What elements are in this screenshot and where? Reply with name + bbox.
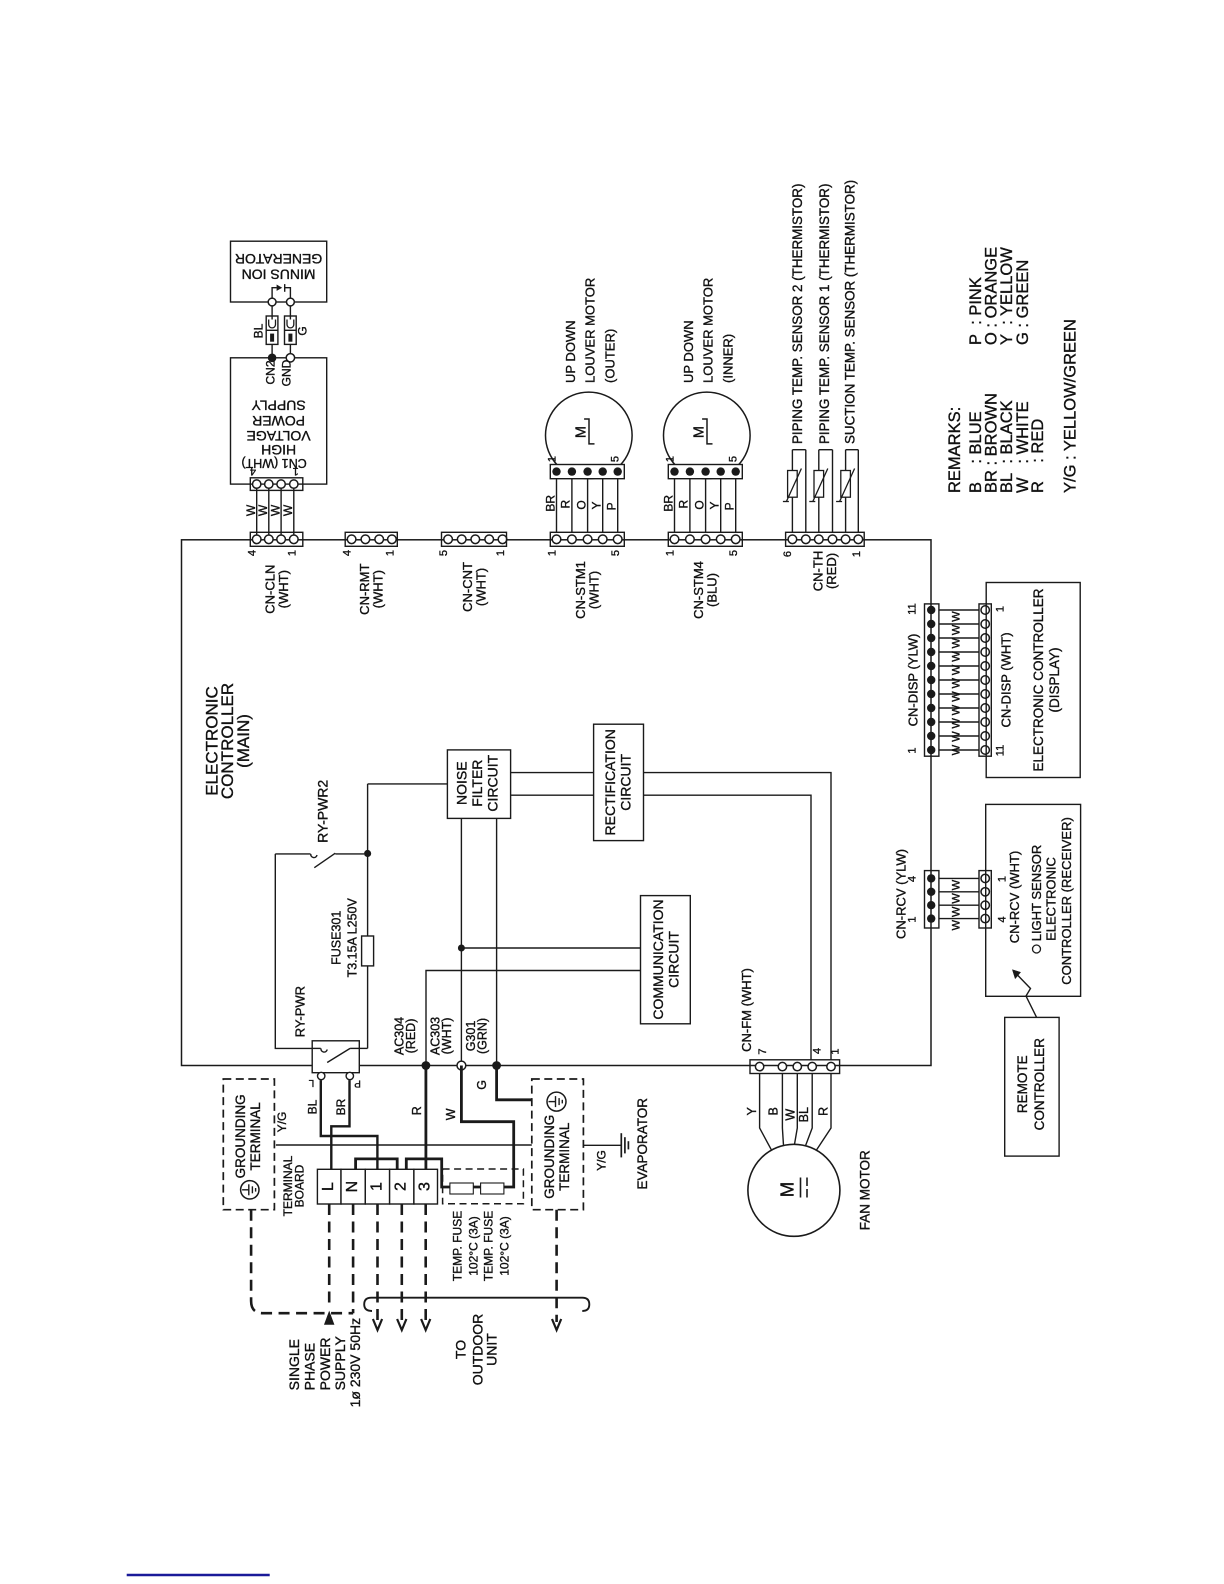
svg-text:TEMP. FUSE: TEMP. FUSE: [450, 1211, 464, 1281]
svg-text:3: 3: [417, 1182, 434, 1191]
thermistor loop 3 top: [846, 449, 859, 451]
wire W disp: [939, 665, 979, 667]
svg-text:VOLTAGE: VOLTAGE: [247, 428, 311, 444]
svg-text:(WHT): (WHT): [587, 571, 602, 609]
electronic controller (main) board outline: [182, 540, 932, 1066]
wire G G301 to grounding terminal: [497, 1066, 532, 1100]
svg-text:6: 6: [782, 551, 794, 557]
svg-text:UNIT: UNIT: [483, 1333, 499, 1366]
wire junction up: [367, 784, 369, 850]
thermistor loop 1 left leg: [791, 450, 793, 533]
bridge terminal N to 2: [356, 1159, 398, 1169]
thermistor loop 1 top: [792, 449, 805, 451]
svg-text:W: W: [951, 664, 963, 675]
wire W disp: [939, 623, 979, 625]
Y/G earth wire: [276, 1144, 532, 1146]
svg-text:1: 1: [495, 550, 507, 556]
svg-text:4: 4: [247, 550, 259, 556]
RY-PWR pin left: [318, 1072, 325, 1079]
connector CN-CNT (WHT): [444, 535, 453, 544]
thermistor loop 2 left leg: [818, 450, 820, 533]
svg-text:W: W: [951, 624, 963, 635]
svg-text:LIGHT SENSOR: LIGHT SENSOR: [1029, 845, 1044, 942]
motor wire: [720, 479, 722, 533]
svg-text:W: W: [951, 611, 963, 622]
temp fuse dashed enclosure: [443, 1169, 524, 1204]
svg-text:G: G: [295, 326, 309, 335]
dashed outdoor cable 3: [424, 1204, 427, 1322]
inline plug connector BL: [266, 316, 278, 344]
dashed earth wire right: [555, 1210, 558, 1322]
svg-text:SUPPLY: SUPPLY: [251, 398, 306, 414]
dashed outdoor cable 2: [400, 1204, 403, 1322]
RY-PWR fixed contact lead: [312, 1047, 321, 1049]
svg-text:W: W: [951, 691, 963, 702]
svg-text:MINUS ION: MINUS ION: [242, 267, 316, 283]
svg-text:CN-RCV (YLW): CN-RCV (YLW): [894, 849, 909, 939]
svg-text:(OUTER): (OUTER): [602, 329, 617, 383]
svg-text:LOUVER MOTOR: LOUVER MOTOR: [701, 278, 716, 383]
svg-text:5: 5: [610, 550, 622, 556]
up-down louver motor (outer) motor circle: [546, 392, 633, 479]
thermistor loop 3 left leg: [845, 450, 847, 533]
svg-text:P: P: [354, 1078, 361, 1089]
svg-text:102°C (3A): 102°C (3A): [498, 1216, 512, 1276]
wire to relay RY-PWR: [275, 854, 312, 1049]
wire noise filter to G301: [496, 818, 498, 1065]
wire W rcv: [939, 918, 979, 920]
junction dot RY-PWR2: [364, 850, 371, 857]
connector CN-RMT (WHT): [347, 535, 356, 544]
svg-text:W: W: [951, 906, 963, 917]
motor wire: [602, 479, 604, 533]
CN-DISP (WHT) connector: [979, 604, 991, 756]
svg-text:GENERATOR: GENERATOR: [235, 251, 322, 267]
junction dot comm wire: [458, 945, 465, 952]
svg-text:(BLU): (BLU): [705, 573, 720, 607]
dashed outdoor cable 1: [376, 1204, 379, 1322]
svg-text:5: 5: [438, 550, 450, 556]
svg-text:TERMINAL: TERMINAL: [557, 1122, 572, 1191]
svg-text:1: 1: [547, 456, 559, 462]
svg-text:GROUNDING: GROUNDING: [542, 1115, 557, 1199]
svg-text:1: 1: [286, 550, 298, 556]
wire R AC304 to terminal 3: [424, 1066, 427, 1170]
svg-text:R: R: [817, 1107, 831, 1116]
svg-text:2: 2: [393, 1182, 410, 1191]
thermistor loop 3 right leg: [857, 450, 859, 533]
svg-text:1: 1: [830, 1048, 842, 1054]
svg-text:W: W: [951, 919, 963, 930]
svg-text:RY-PWR: RY-PWR: [292, 986, 307, 1037]
svg-text:1: 1: [664, 550, 676, 556]
wire plug to CN2: [271, 344, 273, 357]
svg-text:(DISPLAY): (DISPLAY): [1047, 647, 1062, 712]
svg-text:GROUNDING: GROUNDING: [233, 1094, 248, 1178]
arrowhead down: [373, 1319, 382, 1330]
svg-text:O: O: [574, 500, 588, 509]
up-down louver motor (outer) pin block: [550, 465, 624, 479]
svg-text:POWER: POWER: [252, 413, 305, 429]
thermistor symbol 3: [841, 471, 851, 498]
RY-PWR2 blade: [314, 853, 335, 868]
wire W disp: [939, 651, 979, 653]
svg-text:N: N: [344, 1181, 361, 1193]
grounding symbol left: [241, 1181, 259, 1199]
temp fuse 2: [481, 1183, 504, 1194]
dashed earth wire left: [250, 1210, 253, 1301]
CN-RCV (WHT) connector: [979, 871, 991, 928]
wire noise to rectification upper: [511, 772, 594, 774]
wire BR relay to terminal L: [331, 1080, 349, 1169]
relay RY-PWR box: [312, 1041, 359, 1073]
terminal 1: [365, 1169, 389, 1204]
terminal AC304 (RED): [422, 1061, 431, 1070]
svg-text:BL: BL: [306, 1099, 320, 1114]
wire W disp: [939, 609, 979, 611]
svg-text:W: W: [951, 677, 963, 688]
wire G generator to plug: [289, 302, 291, 316]
svg-text:BR: BR: [661, 495, 675, 512]
svg-text:4: 4: [250, 465, 256, 477]
svg-text:G: G: [475, 1080, 489, 1090]
CN-RCV (YLW) connector on board edge: [925, 871, 939, 928]
motor wire: [689, 479, 691, 533]
wire RY-PWR2 to noise filter: [368, 783, 448, 785]
wire W disp: [939, 679, 979, 681]
thermistor loop 2 top: [819, 449, 833, 451]
temp fuse 1: [450, 1183, 473, 1194]
relay switch RY-PWR2: [275, 853, 310, 855]
svg-text:SUPPLY: SUPPLY: [332, 1336, 348, 1391]
svg-text:5: 5: [728, 550, 740, 556]
thermistor symbol 1: [788, 471, 798, 498]
svg-text:POWER: POWER: [317, 1338, 333, 1391]
noise filter circuit box: [447, 750, 510, 819]
svg-text:GND: GND: [280, 359, 294, 386]
wire BL relay to terminal 1: [321, 1080, 378, 1169]
RY-PWR2 fixed contact hook: [311, 854, 317, 858]
svg-text:(WHT): (WHT): [440, 1018, 454, 1055]
arrowhead down: [397, 1319, 406, 1330]
svg-text:M: M: [777, 1182, 798, 1197]
grounding symbol right: [547, 1092, 566, 1111]
svg-text:11: 11: [995, 745, 1007, 756]
up-down louver motor (inner) motor circle: [664, 392, 751, 479]
footer rule: [127, 1574, 270, 1577]
wire BL generator to plug: [271, 302, 273, 316]
wire W CN1 to CN-CLN: [268, 484, 270, 540]
fan motor wires: [760, 1074, 772, 1151]
svg-text:102°C (3A): 102°C (3A): [466, 1216, 480, 1276]
connector CN-TH (RED): [788, 535, 797, 544]
inline plug connector G: [285, 316, 297, 344]
svg-text:Y/G: Y/G: [275, 1112, 289, 1133]
CN-DISP (YLW) connector on board edge: [925, 604, 939, 756]
fuse FUSE301: [362, 936, 374, 966]
wire noise to rectification lower: [511, 794, 594, 796]
svg-text:CONTROLLER: CONTROLLER: [1032, 1038, 1047, 1131]
rectification circuit box: [594, 724, 644, 840]
grounding terminal box left (dashed): [223, 1079, 274, 1210]
svg-text:P: P: [723, 502, 737, 510]
terminal GND (open): [286, 354, 294, 362]
high voltage power supply box: [231, 358, 327, 484]
wire RY-PWR2 to relay via fuse: [367, 857, 369, 1048]
svg-text:BR: BR: [543, 495, 557, 512]
connector CN-STM1 (WHT): [552, 535, 561, 544]
DC symbol solid bar: [800, 1178, 802, 1198]
svg-text:W: W: [951, 704, 963, 715]
wire W rcv: [939, 877, 979, 879]
electronic controller (display) box: [986, 583, 1080, 778]
wire W disp: [939, 721, 979, 723]
terminal CN2 (filled): [268, 354, 277, 363]
arrowhead down: [421, 1319, 430, 1330]
svg-text:1ø 230V 50Hz: 1ø 230V 50Hz: [347, 1318, 363, 1408]
svg-text:W: W: [951, 893, 963, 904]
grounding terminal box right (dashed): [532, 1079, 584, 1210]
svg-text:(WHT): (WHT): [473, 568, 488, 606]
wire W disp: [939, 707, 979, 709]
svg-text:CIRCUIT: CIRCUIT: [485, 754, 501, 811]
svg-text:Y/G : YELLOW/GREEN: Y/G : YELLOW/GREEN: [1062, 319, 1080, 493]
svg-text:CN2: CN2: [263, 360, 277, 384]
svg-text:CONTROLLER (RECEIVER): CONTROLLER (RECEIVER): [1059, 817, 1074, 985]
svg-text:W: W: [783, 1109, 797, 1121]
wire W AC303 to temp fuses to terminal 2: [406, 1066, 513, 1188]
RY-PWR fixed contact hook: [321, 1048, 327, 1052]
light sensor circle glyph: [1033, 945, 1041, 953]
wire noise filter to AC303: [460, 818, 462, 1065]
svg-text:FILTER: FILTER: [469, 760, 485, 807]
svg-text:7: 7: [757, 1048, 769, 1054]
wire W disp: [939, 749, 979, 751]
svg-text:W: W: [951, 637, 963, 648]
svg-text:SINGLE: SINGLE: [286, 1339, 302, 1390]
svg-text:W: W: [951, 651, 963, 662]
svg-text:REMOTE: REMOTE: [1015, 1055, 1030, 1113]
svg-text:PHASE: PHASE: [302, 1343, 318, 1390]
svg-text:CN-DISP (WHT): CN-DISP (WHT): [999, 632, 1014, 727]
up-down louver motor (inner) pin block: [668, 465, 742, 479]
thermistor loop 2 right leg: [832, 450, 834, 533]
terminal 3: [414, 1169, 438, 1204]
motor wire: [705, 479, 707, 533]
svg-text:R : RED: R : RED: [1029, 419, 1047, 493]
RY-PWR blade: [327, 1048, 350, 1062]
svg-text:FAN MOTOR: FAN MOTOR: [857, 1150, 872, 1230]
svg-text:BOARD: BOARD: [293, 1164, 307, 1207]
ionizer discharge symbol: [272, 288, 277, 299]
svg-text:(GRN): (GRN): [476, 1018, 490, 1054]
terminal L: [317, 1169, 341, 1204]
terminal 2: [390, 1169, 414, 1204]
svg-text:FUSE301: FUSE301: [329, 911, 343, 965]
thermistor symbol 2: [814, 471, 824, 498]
wireless signal zigzag arrow: [1017, 974, 1037, 1017]
arrowhead down: [552, 1319, 561, 1330]
svg-text:L: L: [308, 1077, 314, 1088]
svg-text:4: 4: [341, 550, 353, 556]
svg-text:P: P: [605, 502, 619, 510]
svg-text:ELECTRONIC: ELECTRONIC: [1043, 857, 1058, 941]
svg-text:11: 11: [907, 603, 919, 614]
svg-text:1: 1: [546, 550, 558, 556]
svg-text:RECTIFICATION: RECTIFICATION: [602, 729, 618, 835]
wire W disp: [939, 735, 979, 737]
terminal G301 (GRN): [492, 1061, 501, 1070]
svg-text:1: 1: [369, 1182, 386, 1191]
wire communication circuit to AC304: [426, 971, 641, 1066]
svg-text:RY-PWR2: RY-PWR2: [315, 780, 331, 843]
terminal AC303 (WHT): [457, 1061, 466, 1070]
svg-text:COMMUNICATION: COMMUNICATION: [650, 899, 666, 1019]
wire W rcv: [939, 891, 979, 893]
wire W disp: [939, 693, 979, 695]
svg-text:LOUVER MOTOR: LOUVER MOTOR: [583, 278, 598, 383]
svg-text:W: W: [281, 504, 295, 516]
svg-text:ELECTRONIC CONTROLLER: ELECTRONIC CONTROLLER: [1031, 588, 1046, 771]
svg-text:CIRCUIT: CIRCUIT: [666, 931, 682, 988]
remote controller box: [1005, 1017, 1059, 1156]
terminal N: [341, 1169, 365, 1204]
svg-text:PIPING TEMP. SENSOR 2 (THERMIS: PIPING TEMP. SENSOR 2 (THERMISTOR): [790, 184, 805, 444]
minus ion generator box: [231, 241, 327, 302]
stub to relay box: [359, 1047, 367, 1049]
wire plug to GND: [289, 344, 291, 357]
svg-text:TERMINAL: TERMINAL: [248, 1102, 263, 1171]
svg-text:BL: BL: [797, 1107, 811, 1122]
svg-text:HIGH: HIGH: [261, 442, 296, 458]
svg-text:Y: Y: [590, 501, 604, 509]
connector CN-STM4 (BLU): [670, 535, 679, 544]
motor wire: [617, 479, 619, 533]
svg-text:W: W: [444, 1108, 458, 1120]
connector CN-CLN (WHT): [252, 535, 261, 544]
wires rectification to CN-FM: [644, 773, 832, 1060]
electronic controller (receiver) box: [986, 804, 1081, 996]
svg-text:Y: Y: [708, 501, 722, 509]
wire W CN1 to CN-CLN: [293, 484, 295, 540]
svg-text:(WHT): (WHT): [276, 570, 291, 608]
dashed supply cable N: [352, 1204, 355, 1313]
svg-text:W: W: [951, 744, 963, 755]
svg-text:M: M: [692, 426, 708, 438]
DC symbol dashed bar: [806, 1178, 808, 1187]
cable bundle bracket: [364, 1298, 589, 1311]
svg-text:(RED): (RED): [404, 1019, 418, 1054]
wire W rcv: [939, 904, 979, 906]
svg-text:5: 5: [610, 456, 622, 462]
svg-text:1: 1: [293, 465, 299, 477]
svg-text:O: O: [692, 500, 706, 509]
svg-text:R: R: [410, 1106, 424, 1115]
svg-text:PIPING TEMP. SENSOR 1 (THERMIS: PIPING TEMP. SENSOR 1 (THERMISTOR): [817, 184, 832, 444]
dashed earth curve to supply: [251, 1301, 353, 1313]
motor wire: [587, 479, 589, 533]
motor wire: [735, 479, 737, 533]
svg-text:SUCTION TEMP. SENSOR (THERMIST: SUCTION TEMP. SENSOR (THERMISTOR): [843, 180, 858, 444]
RY-PWR pin right: [346, 1072, 353, 1079]
wire W disp: [939, 637, 979, 639]
svg-text:5: 5: [728, 456, 740, 462]
svg-text:1: 1: [384, 550, 396, 556]
generator terminal circle left: [268, 298, 276, 306]
generator terminal circle right: [287, 298, 295, 306]
svg-text:CN-FM (WHT): CN-FM (WHT): [739, 968, 754, 1052]
svg-text:R: R: [559, 500, 573, 509]
svg-text:B: B: [767, 1107, 781, 1115]
svg-text:CN-DISP (YLW): CN-DISP (YLW): [906, 634, 921, 727]
fan motor: [748, 1144, 840, 1236]
svg-text:W: W: [951, 879, 963, 890]
svg-text:Y/G: Y/G: [595, 1150, 609, 1171]
svg-text:UP DOWN: UP DOWN: [681, 320, 696, 383]
svg-text:R: R: [677, 500, 691, 509]
dashed supply cable L: [328, 1204, 331, 1308]
svg-text:BR: BR: [334, 1098, 348, 1115]
svg-text:UP DOWN: UP DOWN: [563, 320, 578, 383]
svg-text:EVAPORATOR: EVAPORATOR: [635, 1098, 650, 1190]
connector CN-FM (WHT): [755, 1062, 763, 1070]
supply arrowhead up: [324, 1312, 334, 1325]
svg-text:W: W: [951, 717, 963, 728]
svg-text:L: L: [320, 1182, 337, 1191]
svg-text:T3.15A L250V: T3.15A L250V: [345, 898, 359, 978]
svg-text:TEMP. FUSE: TEMP. FUSE: [482, 1211, 496, 1281]
wire W CN1 to CN-CLN: [256, 484, 258, 540]
svg-text:W: W: [951, 731, 963, 742]
svg-text:(WHT): (WHT): [371, 570, 386, 608]
wire W CN1 to CN-CLN: [280, 484, 282, 540]
svg-text:NOISE: NOISE: [454, 761, 470, 805]
svg-text:TO: TO: [452, 1340, 468, 1359]
motor wire: [571, 479, 573, 533]
communication circuit box: [641, 896, 691, 1024]
svg-text:CN-RCV (WHT): CN-RCV (WHT): [1007, 851, 1022, 943]
svg-text:Y: Y: [745, 1106, 759, 1115]
svg-text:(MAIN): (MAIN): [234, 714, 253, 768]
svg-text:4: 4: [811, 1048, 823, 1054]
svg-text:(RED): (RED): [824, 553, 839, 589]
svg-text:BL: BL: [252, 323, 266, 338]
svg-text:M: M: [574, 426, 590, 438]
thermistor loop 1 right leg: [805, 450, 807, 533]
evaporator earth symbol: [583, 1144, 621, 1146]
svg-text:(INNER): (INNER): [720, 334, 735, 383]
svg-text:1: 1: [907, 747, 919, 753]
motor wire: [556, 479, 558, 533]
svg-text:1: 1: [665, 456, 677, 462]
svg-text:1: 1: [995, 606, 1007, 612]
motor wire: [674, 479, 676, 533]
svg-text:CIRCUIT: CIRCUIT: [618, 753, 634, 810]
RY-PWR pivot lead: [350, 1047, 359, 1049]
svg-text:1: 1: [851, 551, 863, 557]
svg-text:REMARKS:: REMARKS:: [946, 407, 964, 493]
svg-text:G : GREEN: G : GREEN: [1014, 260, 1032, 345]
wire to communication circuit upper: [461, 947, 640, 949]
